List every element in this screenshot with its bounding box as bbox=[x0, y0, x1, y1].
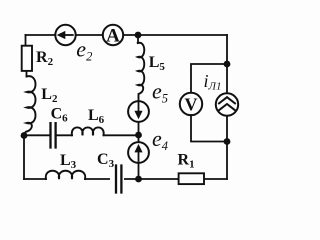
svg-text:V: V bbox=[185, 95, 198, 115]
source e4 bbox=[128, 126, 168, 163]
wire bbox=[104, 134, 139, 136]
ammeter A bbox=[103, 25, 123, 47]
wire bbox=[57, 134, 72, 136]
node (middle junction) bbox=[135, 132, 142, 139]
inductor L5 bbox=[138, 43, 166, 101]
source e5 bbox=[128, 79, 168, 122]
source e2 bbox=[55, 25, 92, 64]
capacitor C6 bbox=[51, 105, 69, 147]
node (left junction) bbox=[21, 132, 28, 139]
voltmeter V bbox=[180, 93, 202, 115]
inductor L2 bbox=[24, 76, 58, 134]
wire bbox=[226, 35, 228, 179]
resistor R1 bbox=[178, 152, 205, 185]
wire bbox=[137, 35, 139, 43]
wire bbox=[24, 134, 49, 136]
node (top junction) bbox=[135, 32, 142, 39]
node (right top junction) bbox=[224, 61, 231, 68]
wire bbox=[138, 122, 140, 142]
capacitor C3 bbox=[97, 151, 124, 193]
inductor L6 bbox=[72, 107, 105, 135]
wire bbox=[138, 163, 140, 179]
wire bbox=[26, 71, 28, 77]
wire bbox=[24, 178, 227, 180]
node (right bottom junction) bbox=[224, 138, 231, 145]
wire bbox=[191, 115, 227, 142]
node (bottom junction) bbox=[135, 176, 142, 183]
wire bbox=[23, 136, 25, 180]
wire bbox=[25, 35, 27, 46]
current source iJ1 bbox=[204, 71, 239, 116]
inductor L3 bbox=[46, 152, 85, 179]
svg-text:A: A bbox=[106, 26, 120, 47]
wire bbox=[191, 64, 227, 93]
wire bbox=[26, 34, 228, 36]
resistor R2 bbox=[22, 46, 54, 71]
